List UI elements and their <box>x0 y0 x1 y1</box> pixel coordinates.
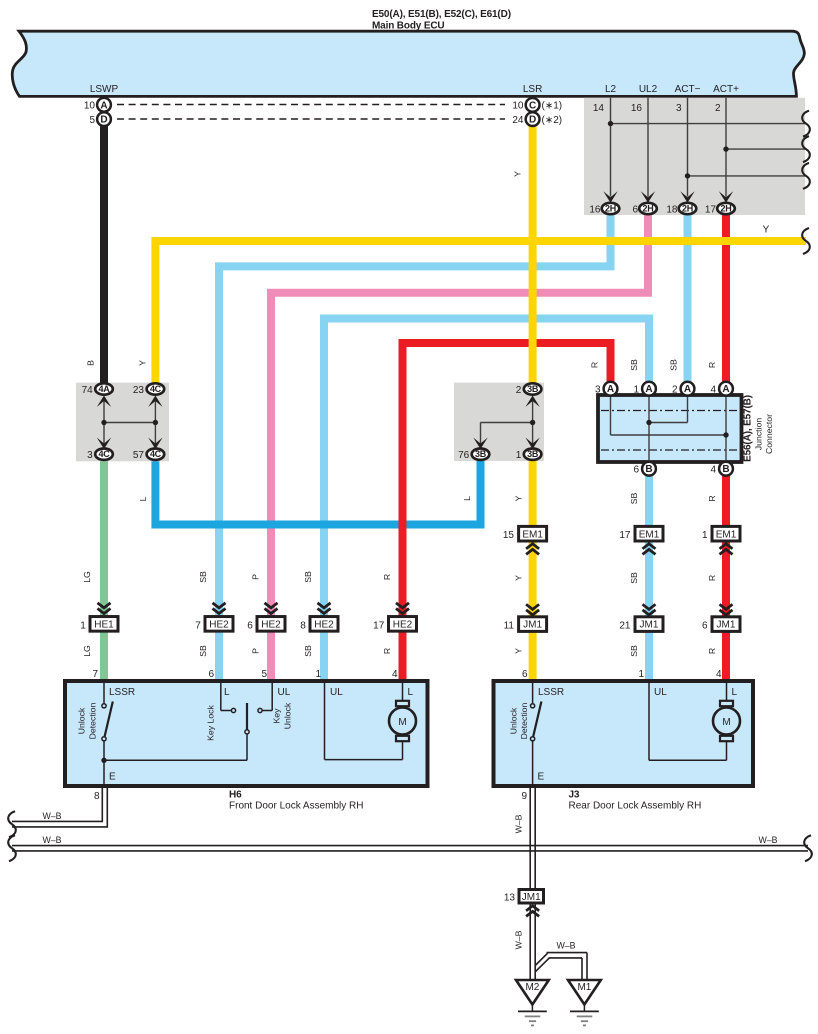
junction dots <box>646 420 651 425</box>
svg-text:R: R <box>382 574 392 580</box>
svg-text:11: 11 <box>504 621 515 632</box>
ground M1 <box>568 980 601 1005</box>
svg-text:Y: Y <box>514 648 524 654</box>
wire LG from 3 4C to 1 HE1 <box>100 460 108 682</box>
junction dots 4A/4C <box>101 420 106 425</box>
svg-text:3B: 3B <box>527 449 539 459</box>
svg-text:Front Door Lock Assembly RH: Front Door Lock Assembly RH <box>229 801 364 812</box>
svg-text:LG: LG <box>82 571 92 583</box>
svg-text:HE2: HE2 <box>261 620 281 631</box>
page-continuation mark right <box>804 835 812 861</box>
svg-text:L: L <box>408 687 414 698</box>
svg-text:E50(A), E51(B), E52(C), E61(D): E50(A), E51(B), E52(C), E61(D) <box>372 9 511 20</box>
gray junction block 4A/4C <box>76 383 169 462</box>
junction dot 3B <box>530 420 535 425</box>
H6 unlock detection switch <box>102 704 106 708</box>
svg-text:L: L <box>732 687 738 698</box>
svg-text:76: 76 <box>458 450 470 461</box>
svg-text:10: 10 <box>84 101 96 112</box>
ground wire W-B from J3 pin 9 <box>529 786 531 980</box>
svg-text:17: 17 <box>705 205 717 216</box>
svg-text:UL2: UL2 <box>639 84 658 95</box>
svg-text:L: L <box>138 496 148 501</box>
gray relay block 2H <box>584 98 805 215</box>
svg-text:3: 3 <box>595 385 601 396</box>
svg-text:M1: M1 <box>577 982 591 993</box>
svg-text:SB: SB <box>629 359 639 371</box>
svg-text:6: 6 <box>208 669 214 680</box>
svg-text:Y: Y <box>763 225 770 236</box>
Y bus page-continuation mark <box>802 228 810 254</box>
svg-text:3: 3 <box>87 450 93 461</box>
branch wire to other page (from ACT-) <box>688 175 807 177</box>
svg-text:Rear Door Lock Assembly RH: Rear Door Lock Assembly RH <box>569 801 702 812</box>
svg-text:SB: SB <box>629 493 639 505</box>
svg-text:7: 7 <box>195 621 201 632</box>
svg-text:57: 57 <box>133 450 145 461</box>
svg-text:JM1: JM1 <box>640 620 659 631</box>
connector 1 EM1 <box>712 526 740 541</box>
svg-text:SB: SB <box>303 571 313 583</box>
connector 17 2H <box>717 203 735 214</box>
svg-text:Unlock: Unlock <box>77 707 87 734</box>
wire R from 4B to 1 EM1 <box>722 476 730 681</box>
pin 14 L2 internal wire <box>610 98 612 197</box>
svg-text:M: M <box>398 717 406 728</box>
ECU pin circle 24 D <box>526 112 540 126</box>
branch wire to other page (from L2) <box>611 123 807 125</box>
junction connector E56/E57 box <box>598 395 742 462</box>
svg-text:(∗1): (∗1) <box>542 101 563 112</box>
pin 16 UL2 internal wire <box>647 98 649 197</box>
svg-text:UL: UL <box>330 687 343 698</box>
svg-text:4A: 4A <box>99 384 111 394</box>
svg-text:JM1: JM1 <box>717 620 736 631</box>
connector 23 4C <box>147 383 165 394</box>
pin 1 A <box>642 382 656 396</box>
internal wire 4A-4B <box>725 396 727 461</box>
dash-dot separators <box>601 410 739 412</box>
svg-text:E56(A), E57(B): E56(A), E57(B) <box>743 395 754 462</box>
svg-text:W–B: W–B <box>514 930 524 949</box>
pin 3 ACT- internal wire <box>687 98 689 197</box>
svg-text:17: 17 <box>373 621 385 632</box>
svg-text:R: R <box>707 362 717 368</box>
svg-text:4C: 4C <box>99 449 111 459</box>
arrow into 23 4C <box>148 396 162 408</box>
svg-text:SB: SB <box>198 571 208 583</box>
svg-text:L: L <box>224 687 230 698</box>
svg-text:Y: Y <box>514 575 524 581</box>
svg-text:23: 23 <box>133 385 145 396</box>
wire SB from 16 2H to 7 HE2 <box>219 214 611 682</box>
arrow into 3 4C <box>97 438 111 450</box>
svg-text:A: A <box>645 384 652 395</box>
svg-text:R: R <box>707 648 717 654</box>
svg-text:LSSR: LSSR <box>538 687 564 698</box>
svg-text:2: 2 <box>516 385 522 396</box>
ECU pin circle 10 A <box>97 98 111 112</box>
svg-text:LSSR: LSSR <box>109 687 135 698</box>
svg-text:3: 3 <box>676 103 682 114</box>
wire Y from 1 3B to 15 EM1 <box>529 460 537 682</box>
svg-text:ACT+: ACT+ <box>713 84 739 95</box>
svg-text:HE2: HE2 <box>209 620 229 631</box>
arrow into 1 3B <box>525 438 539 450</box>
gray junction block 3B <box>454 383 544 461</box>
svg-text:R: R <box>707 495 717 501</box>
H6 LSSR lead <box>103 681 105 704</box>
svg-text:8: 8 <box>300 621 306 632</box>
wire SB from 18 2H to 2A <box>684 214 692 382</box>
svg-text:L2: L2 <box>605 84 617 95</box>
svg-text:E: E <box>109 772 116 783</box>
svg-text:HE1: HE1 <box>94 620 114 631</box>
svg-text:Y: Y <box>514 495 524 501</box>
svg-text:UL: UL <box>278 687 291 698</box>
arrow into 6 2H <box>641 191 655 203</box>
connector 57 4C <box>147 449 165 460</box>
H6 key lock contact (pin 6) <box>220 681 222 711</box>
J3 motor circuit L (pin 4) <box>726 681 728 702</box>
wire SB from 6B to 17 EM1 <box>645 476 653 681</box>
Main Body ECU band E50/E51/E52/E61 <box>12 31 804 96</box>
svg-text:Y: Y <box>513 171 523 177</box>
svg-text:P: P <box>251 648 261 654</box>
svg-text:C: C <box>529 100 536 111</box>
svg-text:M2: M2 <box>525 982 539 993</box>
svg-text:SB: SB <box>303 645 313 657</box>
pin 2 ACT+ internal wire <box>725 98 727 197</box>
arrow into 16 2H <box>603 191 617 203</box>
ECU pin circle 10 C <box>526 98 540 112</box>
pin 2 A <box>681 382 695 396</box>
svg-text:17: 17 <box>619 530 631 541</box>
pin 6 B <box>642 462 656 476</box>
svg-text:6: 6 <box>522 669 528 680</box>
svg-text:2H: 2H <box>643 204 654 214</box>
svg-text:(∗2): (∗2) <box>542 115 563 126</box>
internal wire 2A <box>687 396 689 423</box>
svg-text:1: 1 <box>80 621 86 632</box>
H6 motor M <box>396 701 409 706</box>
J3 unlock detection switch <box>531 704 535 708</box>
svg-text:1: 1 <box>638 669 644 680</box>
svg-text:W–B: W–B <box>42 811 61 821</box>
svg-text:P: P <box>251 574 261 580</box>
svg-text:21: 21 <box>619 621 631 632</box>
J3 motor circuit UL (pin 1) <box>648 681 650 760</box>
svg-text:4: 4 <box>710 465 716 476</box>
H6 internal common link <box>101 758 106 763</box>
arrow into 57 4C <box>148 438 162 450</box>
svg-text:Y: Y <box>138 360 148 366</box>
svg-text:W–B: W–B <box>514 814 524 833</box>
svg-text:D: D <box>100 115 107 126</box>
svg-text:ACT−: ACT− <box>675 84 701 95</box>
svg-text:8: 8 <box>94 791 100 802</box>
wire Y bus from 23 4C to right page edge <box>155 241 806 384</box>
svg-text:HE2: HE2 <box>314 620 334 631</box>
pin 3 A <box>604 382 618 396</box>
svg-text:Junction: Junction <box>754 418 764 451</box>
svg-text:5: 5 <box>89 115 95 126</box>
svg-text:1: 1 <box>702 530 708 541</box>
wire R from 17 2H to 4A <box>722 214 730 382</box>
svg-text:Main Body ECU: Main Body ECU <box>372 21 445 32</box>
ECU pin circle 5 D <box>97 112 111 126</box>
svg-text:H6: H6 <box>229 790 242 801</box>
connector 6 HE2 <box>265 603 278 614</box>
svg-text:3B: 3B <box>475 449 487 459</box>
svg-text:A: A <box>607 384 614 395</box>
connector 6 JM1 <box>720 604 733 615</box>
svg-text:18: 18 <box>666 205 678 216</box>
svg-text:6: 6 <box>247 621 253 632</box>
H6 motor circuit L (pin 4) <box>402 681 404 702</box>
arrow into 17 2H <box>719 191 733 203</box>
svg-text:5: 5 <box>261 669 267 680</box>
connector 11 JM1 <box>526 604 539 615</box>
svg-text:R: R <box>590 362 600 368</box>
svg-text:B: B <box>722 464 729 475</box>
connector 15 EM1 <box>519 526 547 541</box>
internal wire 3A <box>610 396 612 435</box>
svg-text:UL: UL <box>654 687 667 698</box>
svg-text:1: 1 <box>516 450 522 461</box>
svg-text:1: 1 <box>315 669 321 680</box>
svg-text:LSWP: LSWP <box>90 84 119 95</box>
svg-text:6: 6 <box>702 621 708 632</box>
connector 1 HE1 <box>98 603 111 614</box>
svg-text:2H: 2H <box>682 204 693 214</box>
svg-text:SB: SB <box>669 359 679 371</box>
svg-text:15: 15 <box>503 530 515 541</box>
connector 3 4C <box>95 449 113 460</box>
connector 21 JM1 <box>643 604 656 615</box>
svg-text:A: A <box>684 384 691 395</box>
svg-text:74: 74 <box>82 385 94 396</box>
internal link lines 3B <box>532 400 534 445</box>
svg-text:Detection: Detection <box>88 702 98 739</box>
internal link lines 4A/4C <box>103 400 105 445</box>
svg-text:Key: Key <box>272 708 282 724</box>
page-continuation mark left lower <box>8 835 16 861</box>
connector 76 3B <box>472 449 490 460</box>
svg-text:Unlock: Unlock <box>509 707 519 734</box>
svg-text:A: A <box>722 384 729 395</box>
connector 1 3B <box>524 449 542 460</box>
wire R from 3A junction to 17 HE2 <box>403 343 611 681</box>
svg-text:4C: 4C <box>150 384 162 394</box>
svg-text:L: L <box>462 496 472 501</box>
connector 6 2H <box>639 203 657 214</box>
wire P from 6 2H to 6 HE2 <box>271 214 648 682</box>
svg-text:E: E <box>538 772 545 783</box>
svg-text:2H: 2H <box>605 204 616 214</box>
svg-text:R: R <box>382 648 392 654</box>
connector 18 2H <box>679 203 697 214</box>
connector 7 HE2 <box>213 603 226 614</box>
svg-text:M: M <box>722 717 730 728</box>
svg-text:A: A <box>100 100 107 111</box>
J3 LSSR lead <box>532 681 534 704</box>
svg-text:4: 4 <box>716 669 722 680</box>
connector 17 HE2 <box>396 603 409 614</box>
svg-text:W–B: W–B <box>758 835 777 845</box>
svg-text:HE2: HE2 <box>393 620 413 631</box>
svg-text:16: 16 <box>589 205 601 216</box>
svg-text:6: 6 <box>632 205 638 216</box>
page-continuation mark left upper <box>8 811 16 837</box>
svg-text:JM1: JM1 <box>522 892 541 903</box>
front door lock assembly H6 box <box>65 681 428 786</box>
arrow into 74 4A <box>97 396 111 408</box>
connector 13 JM1 <box>519 890 544 904</box>
svg-text:EM1: EM1 <box>639 529 660 540</box>
svg-text:Connector: Connector <box>764 414 774 454</box>
pin 4 B <box>719 462 733 476</box>
svg-text:SB: SB <box>198 645 208 657</box>
svg-text:JM1: JM1 <box>523 620 542 631</box>
svg-text:SB: SB <box>629 645 639 657</box>
svg-text:W–B: W–B <box>556 941 575 951</box>
wire SB from 1A junction to 8 HE2 <box>324 319 649 682</box>
ground branch to M1 <box>535 953 547 965</box>
J3 motor M <box>720 701 733 706</box>
connector 8 HE2 <box>318 603 331 614</box>
svg-text:J3: J3 <box>569 790 580 801</box>
svg-text:LSR: LSR <box>523 84 542 95</box>
svg-text:EM1: EM1 <box>522 529 543 540</box>
svg-text:B: B <box>645 464 652 475</box>
branch wire to other page (from ACT+) <box>726 148 806 150</box>
svg-text:7: 7 <box>92 669 98 680</box>
connector 2 3B <box>524 383 542 394</box>
svg-text:9: 9 <box>521 791 527 802</box>
svg-text:W–B: W–B <box>42 835 61 845</box>
svg-text:3B: 3B <box>527 384 539 394</box>
svg-text:Key Lock: Key Lock <box>206 704 216 740</box>
svg-text:2: 2 <box>672 385 678 396</box>
svg-text:16: 16 <box>631 103 643 114</box>
pin 4 A <box>719 382 733 396</box>
svg-text:2: 2 <box>715 103 721 114</box>
svg-text:SB: SB <box>629 572 639 584</box>
svg-text:R: R <box>707 575 717 581</box>
connector 16 2H <box>602 203 620 214</box>
svg-text:Unlock: Unlock <box>283 702 293 729</box>
wire L from 57 4C to 76 3B <box>155 460 480 525</box>
svg-text:B: B <box>86 360 96 366</box>
ground M2 <box>516 980 549 1005</box>
connector 74 4A <box>95 383 113 394</box>
svg-text:4: 4 <box>392 669 398 680</box>
svg-text:D: D <box>529 115 536 126</box>
wire black B from ECU LSWP <box>100 126 108 384</box>
ground bus W-B full width <box>12 845 808 847</box>
H6 motor circuit UL (pin 1) <box>324 681 326 760</box>
svg-text:24: 24 <box>512 115 524 126</box>
H6 key switch arm <box>246 703 248 730</box>
svg-text:6: 6 <box>633 465 639 476</box>
svg-text:4: 4 <box>710 385 716 396</box>
arrow into 76 3B <box>473 438 487 450</box>
svg-text:4C: 4C <box>150 449 162 459</box>
H6 key unlock contact (pin 5) <box>271 681 273 711</box>
arrow into 2 3B <box>525 396 539 408</box>
svg-text:13: 13 <box>504 893 516 904</box>
svg-text:1: 1 <box>633 385 639 396</box>
svg-text:14: 14 <box>593 103 605 114</box>
svg-text:LG: LG <box>82 645 92 657</box>
arrow into 18 2H <box>680 191 694 203</box>
internal wire 1A-6B <box>648 396 650 461</box>
svg-text:10: 10 <box>512 101 524 112</box>
wire Y from ECU LSR to 2 3B <box>529 126 537 384</box>
svg-text:2H: 2H <box>721 204 732 214</box>
svg-text:EM1: EM1 <box>716 529 737 540</box>
ground wire W-B from H6 pin 8 <box>12 786 102 821</box>
svg-text:Detection: Detection <box>519 702 529 739</box>
rear door lock assembly J3 box <box>494 681 754 786</box>
ECU pin 10 C / 5 D dashed links <box>117 104 505 106</box>
connector 17 EM1 <box>635 526 663 541</box>
